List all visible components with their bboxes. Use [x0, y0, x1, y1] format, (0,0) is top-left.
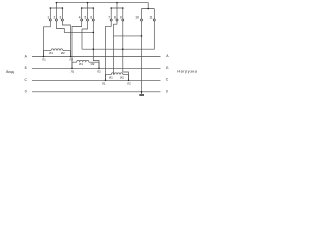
ground: [139, 94, 144, 96]
junction: jumper 2 left end: [81, 7, 83, 9]
junction: contact 5 stem on earth bus: [87, 2, 89, 4]
svg-text:11: 11: [149, 15, 153, 19]
inductor L3 winding: [111, 73, 123, 75]
contact 4: [81, 19, 83, 21]
svg-text:Нагрузка: Нагрузка: [177, 70, 197, 74]
svg-text:6: 6: [90, 16, 92, 20]
svg-text:С: С: [166, 78, 169, 82]
inductor L1 leads on line A: [44, 51, 71, 57]
wire: contact 7 down to terminal Л1 of coil L3 on line C: [106, 21, 112, 80]
node A: line А: [32, 56, 161, 58]
svg-text:Б: Б: [166, 66, 169, 70]
junction: jumper 3 left end: [110, 7, 112, 9]
node 0: line 0 (earth wire): [32, 91, 161, 93]
junction: contact 8 stem on earth bus: [116, 2, 118, 4]
svg-text:С: С: [24, 78, 27, 82]
wire: contact 1 down to terminal Л1 of coil L1 on line A: [44, 21, 51, 56]
wire: contact 8 down to coil L3 with branch to contact 10 wire: [114, 21, 142, 75]
inductor L2 leads on line B: [72, 62, 99, 68]
svg-text:1: 1: [47, 16, 49, 20]
svg-text:Б: Б: [25, 66, 28, 70]
svg-text:И1: И1: [109, 75, 113, 79]
svg-text:И2: И2: [120, 75, 124, 79]
junction: contact 2 wire on contact 6 wire: [93, 32, 95, 34]
wire: top earth bus from contact 2 stem to group 4 jumper: [56, 3, 148, 9]
inductor L2 winding: [77, 60, 89, 62]
contact 5: [87, 19, 89, 21]
junction: jumper 1 right end: [62, 7, 64, 9]
svg-text:9: 9: [120, 16, 122, 20]
svg-text:10: 10: [135, 15, 139, 19]
svg-text:Л1: Л1: [42, 57, 46, 61]
contact 3: [61, 19, 63, 21]
junction: terminal Л2 of L3 on line C: [128, 80, 130, 82]
junction: contact 2 stem on earth bus: [56, 2, 58, 4]
junction: terminal Л1 of L2 on line B: [71, 68, 73, 70]
wire: contact 2 over to junction on contact 6 wire: [56, 21, 93, 32]
svg-text:Л2: Л2: [69, 57, 73, 61]
svg-text:А: А: [25, 55, 28, 59]
svg-text:Л1: Л1: [102, 81, 106, 85]
svg-text:Вход: Вход: [6, 70, 14, 74]
contact 7: [110, 19, 112, 21]
svg-text:Л2: Л2: [97, 69, 101, 73]
svg-text:5: 5: [85, 16, 87, 20]
svg-text:7: 7: [108, 16, 110, 20]
junction: terminal Л2 of L1 on line A: [70, 56, 72, 58]
junction: contact 9 wire on middle bus: [122, 48, 124, 50]
wire: contact 3 down to terminal Л2 of coil L1 on line A: [62, 21, 70, 56]
inductor L1 winding: [51, 49, 63, 51]
contact 11: [153, 19, 155, 21]
wire: contact 10 down to earth on line 0: [141, 21, 143, 93]
svg-text:0: 0: [166, 90, 168, 94]
svg-text:4: 4: [79, 16, 81, 20]
junction: jumper 1 left end: [50, 7, 52, 9]
inductor L3 leads on line C: [106, 75, 129, 81]
svg-text:Л1: Л1: [71, 69, 75, 73]
wire: contact 5 down to middle horizontal bus: [82, 21, 88, 49]
svg-text:8: 8: [114, 16, 116, 20]
contact 9: [122, 19, 124, 21]
wire: contact 6 down to terminal Л2 of coil L2 on line B: [93, 21, 99, 68]
svg-text:И2: И2: [91, 62, 95, 66]
svg-text:2: 2: [53, 16, 55, 20]
junction: contact 6 wire on middle bus: [93, 48, 95, 50]
node B: line Б: [32, 67, 161, 69]
junction: contact 8 branch on contact 10 wire: [141, 35, 143, 37]
junction: terminal Л1 of L1 on line A: [43, 56, 45, 58]
junction: jumper 2 right end: [93, 7, 95, 9]
contact 2: [55, 19, 57, 21]
svg-text:И1: И1: [49, 51, 53, 55]
svg-text:0: 0: [25, 90, 27, 94]
wire: contact 11 down and left along middle horizontal bus: [82, 21, 154, 49]
svg-text:Л2: Л2: [127, 81, 131, 85]
svg-text:3: 3: [59, 16, 61, 20]
ground stub below line 0: [141, 92, 143, 94]
svg-text:А: А: [166, 54, 169, 58]
jumper bracket over contacts 7-8-9: [111, 3, 123, 19]
svg-text:И1: И1: [79, 62, 83, 66]
contact 6: [92, 19, 94, 21]
svg-text:И2: И2: [61, 51, 65, 55]
junction: jumper 3 right end: [122, 7, 124, 9]
contact 8: [116, 19, 118, 21]
node C: line С: [32, 79, 161, 81]
jumper bracket over contacts 1-2-3: [50, 3, 62, 19]
junction: earth bus drop on jumper 4: [147, 8, 149, 10]
wire: contact 9 down to terminal Л2 of coil L3 on line C: [123, 21, 129, 80]
jumper bracket over contacts 10-11: [142, 9, 155, 20]
contact 10: [141, 19, 143, 21]
junction: terminal Л2 of L2 on line B: [98, 68, 100, 70]
wire: contact 4 down to terminal Л1 of coil L2 on line B: [72, 21, 82, 68]
junction: earth tap on line 0: [141, 91, 143, 93]
contact 1: [49, 19, 51, 21]
jumper bracket over contacts 4-5-6: [82, 3, 94, 19]
junction: terminal Л1 of L3 on line C: [105, 80, 107, 82]
